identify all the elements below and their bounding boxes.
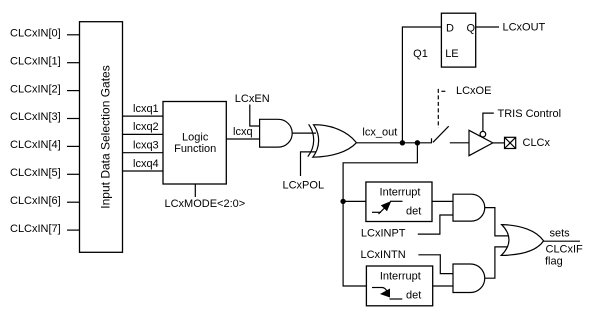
wire CLCxIN[5] to input gates bbox=[67, 173, 80, 175]
xor gate G2 (polarity) bbox=[308, 124, 357, 157]
svg-text:LCxOE: LCxOE bbox=[456, 85, 491, 97]
svg-text:lcx_out: lcx_out bbox=[362, 127, 397, 139]
wire LCxPOL to xor gate bbox=[301, 152, 317, 176]
junction dot lcx_out to flip-flop bbox=[400, 140, 405, 145]
wire TRIS control bbox=[483, 113, 494, 131]
wire CLCxIN[0] to input gates bbox=[67, 34, 80, 36]
flip-flop U1 (D latch with LE) bbox=[441, 13, 475, 67]
svg-text:sets: sets bbox=[550, 228, 571, 240]
wire CLCxIN[3] to input gates bbox=[67, 118, 80, 120]
pad symbol CLCx bbox=[505, 137, 516, 148]
wire lcx_out to D input of flip-flop bbox=[402, 27, 441, 143]
wire lcxq2 with label bbox=[123, 121, 164, 134]
wire CLCxIN[1] to input gates bbox=[67, 62, 80, 64]
svg-text:LCxINTN: LCxINTN bbox=[361, 249, 406, 261]
wire lcxq4 with label bbox=[123, 158, 164, 171]
svg-text:CLCxIF: CLCxIF bbox=[546, 244, 584, 256]
wire lcxq3 with label bbox=[123, 140, 164, 153]
svg-text:Function: Function bbox=[174, 143, 216, 155]
svg-text:LCxMODE<2:0>: LCxMODE<2:0> bbox=[165, 198, 246, 210]
wire branch to rising detector bbox=[343, 200, 366, 202]
svg-text:D: D bbox=[446, 22, 454, 34]
and gate G3 bbox=[453, 194, 485, 221]
svg-text:det: det bbox=[406, 206, 421, 218]
wire or gate to CLCxIF flag bbox=[544, 240, 580, 242]
interrupt det block 2 (falling edge) bbox=[366, 266, 432, 306]
wire CLCxIN[6] to input gates bbox=[67, 201, 80, 203]
input data selection gates block bbox=[80, 22, 123, 253]
svg-text:CLCxIN[2]: CLCxIN[2] bbox=[10, 83, 61, 95]
svg-text:LCxINPT: LCxINPT bbox=[361, 227, 406, 239]
wire lcx_out main net bbox=[357, 142, 432, 144]
tri-state buffer U2 bbox=[469, 130, 493, 155]
svg-text:Logic: Logic bbox=[182, 132, 209, 144]
svg-text:CLCxIN[4]: CLCxIN[4] bbox=[10, 139, 61, 151]
wire LCxMODE stub bbox=[194, 184, 196, 197]
switch SW1 (output enable) bbox=[432, 126, 449, 143]
interrupt det block 1 (rising edge) bbox=[366, 182, 432, 222]
svg-text:LCxEN: LCxEN bbox=[235, 93, 270, 105]
wire buffer to pad bbox=[493, 142, 505, 144]
junction dot branch to rising detector bbox=[340, 199, 345, 204]
svg-text:TRIS Control: TRIS Control bbox=[498, 108, 562, 120]
svg-text:Interrupt: Interrupt bbox=[380, 271, 421, 283]
wire lcxq to and gate with label bbox=[226, 126, 259, 139]
svg-text:Input Data Selection Gates: Input Data Selection Gates bbox=[99, 65, 113, 208]
wire G4 to or gate bbox=[485, 247, 510, 278]
svg-text:lcxq2: lcxq2 bbox=[133, 121, 159, 133]
wire rising detector to and gate G3 bbox=[432, 200, 453, 202]
svg-text:lcxq3: lcxq3 bbox=[133, 140, 159, 152]
wire LCxOE dashed control line bbox=[438, 89, 445, 128]
wire G3 to or gate bbox=[485, 208, 510, 236]
svg-text:lcxq: lcxq bbox=[233, 126, 253, 138]
svg-text:CLCxIN[3]: CLCxIN[3] bbox=[10, 111, 61, 123]
wire CLCxIN[4] to input gates bbox=[67, 145, 80, 147]
svg-text:det: det bbox=[406, 290, 421, 302]
wire Q output bbox=[476, 26, 499, 28]
or gate G5 bbox=[501, 225, 543, 256]
svg-text:Q: Q bbox=[467, 22, 476, 34]
wire lcx_out branch to interrupt detectors bbox=[343, 143, 417, 286]
wire LCxINPT to and gate G3 bbox=[418, 215, 453, 234]
svg-text:LCxOUT: LCxOUT bbox=[503, 21, 546, 33]
svg-text:CLCxIN[5]: CLCxIN[5] bbox=[10, 167, 61, 179]
rising edge icon bbox=[372, 201, 403, 214]
svg-text:CLCx: CLCx bbox=[523, 137, 551, 149]
svg-text:CLCxIN[7]: CLCxIN[7] bbox=[10, 223, 61, 235]
svg-text:CLCxIN[6]: CLCxIN[6] bbox=[10, 195, 61, 207]
svg-text:LCxPOL: LCxPOL bbox=[283, 179, 325, 191]
wire LCxEN to and gate bbox=[250, 105, 260, 127]
wire LCxINTN to and gate G4 bbox=[418, 255, 453, 274]
svg-text:flag: flag bbox=[545, 256, 563, 268]
logic function block bbox=[163, 102, 226, 185]
svg-text:lcxq1: lcxq1 bbox=[133, 103, 159, 115]
wire and gate to xor gate bbox=[292, 132, 316, 134]
wire CLCxIN[7] to input gates bbox=[67, 229, 80, 231]
wire lcxq1 with label bbox=[123, 103, 164, 116]
wire CLCxIN[2] to input gates bbox=[67, 90, 80, 92]
junction dot lcx_out to interrupt logic bbox=[415, 140, 420, 145]
svg-text:CLCxIN[1]: CLCxIN[1] bbox=[10, 55, 61, 67]
wire switch to tri-state buffer bbox=[450, 142, 469, 144]
svg-text:lcxq4: lcxq4 bbox=[133, 158, 159, 170]
wire falling detector to and gate G4 bbox=[433, 285, 453, 287]
and gate G1 (enable) bbox=[260, 119, 293, 147]
svg-text:Q1: Q1 bbox=[413, 48, 428, 60]
svg-text:Interrupt: Interrupt bbox=[380, 186, 421, 198]
falling edge icon bbox=[372, 288, 402, 300]
svg-text:LE: LE bbox=[445, 48, 458, 60]
svg-text:CLCxIN[0]: CLCxIN[0] bbox=[10, 28, 61, 40]
and gate G4 bbox=[453, 264, 485, 293]
